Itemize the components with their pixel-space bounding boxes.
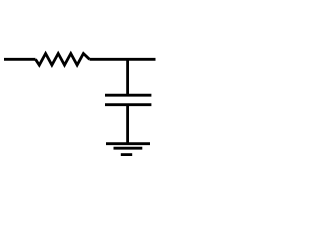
wire: capacitor bottom plate to ground	[126, 105, 129, 144]
wire: resistor to right terminal (through node A)	[90, 58, 156, 61]
capacitor C1 bottom plate	[105, 103, 151, 106]
wire: left input lead	[4, 58, 36, 61]
capacitor C1 top plate	[105, 94, 151, 97]
resistor R1	[36, 54, 90, 66]
ground: middle bar	[114, 147, 143, 150]
ground: top (widest) bar	[106, 142, 150, 145]
wire: node A down to capacitor top plate	[126, 59, 129, 95]
ground: bottom (narrowest) bar	[121, 153, 132, 156]
